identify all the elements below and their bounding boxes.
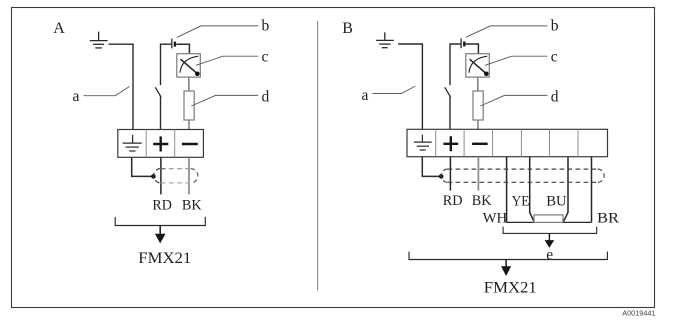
wire: top branch with corner (A) [161,44,172,85]
leader line a (B) [373,86,416,94]
wire WH (B) [506,157,508,223]
wire BK (B) [477,157,479,191]
svg-text:BK: BK [182,198,202,214]
arrow e (B) [548,233,550,240]
svg-text:c: c [551,49,558,66]
svg-text:RD: RD [443,193,463,209]
leader line d (B) [480,95,547,106]
wire: resistor to - terminal (B) [477,120,479,129]
battery b (B) [460,38,462,48]
wire: battery to meter corner (B) [466,44,479,54]
svg-text:a: a [362,87,369,104]
wire RD (B) [449,157,451,191]
terminal ground symbol (A) [123,135,142,151]
ground (earth) symbol B [376,32,394,47]
wire: meter to resistor (A) [188,77,190,91]
svg-text:FMX21: FMX21 [484,279,537,296]
svg-text:FMX21: FMX21 [138,250,191,267]
svg-text:b: b [262,17,270,34]
wire YE (B) [530,157,535,223]
wire: battery to meter corner (A) [176,44,189,54]
arrow (B) [505,260,507,267]
wire: resistor to - terminal (A) [188,120,190,130]
switch contact (A) [155,87,161,97]
junction dot on shield (B) [439,174,444,179]
wire: switch to + terminal (B) [449,97,451,129]
leader line b (A) [177,26,258,38]
svg-text:A0019441: A0019441 [622,309,655,318]
meter U c (B) [466,54,490,77]
ground (earth) symbol A [90,32,108,48]
wire: terminal 1 to cable shield (B) [422,157,439,177]
bracket (A) [115,217,205,226]
cable sheath oval (B) [441,169,604,182]
leader line b (B) [466,26,547,37]
svg-text:e: e [546,246,553,263]
leader line d (A) [191,95,258,106]
svg-text:d: d [551,88,559,105]
wire: top branch with corner (B) [450,44,460,85]
wire RD (A) [160,157,162,194]
svg-text:a: a [73,88,80,105]
terminal plus symbol (B) [443,136,458,151]
resistor d (A) [184,91,194,120]
svg-text:YE: YE [512,193,530,209]
terminal ground symbol (B) [414,135,432,150]
wire: terminal 1 to cable shield (A) [132,157,152,176]
svg-text:BU: BU [546,193,567,209]
wire BR (B) [591,157,593,223]
panel divider [317,21,319,290]
wire: bottom joining line (B) [507,221,592,223]
svg-text:A: A [53,20,65,37]
cable sheath oval (A) [154,169,198,183]
svg-text:BR: BR [597,210,619,226]
terminal block A [118,130,204,158]
leader line c (A) [196,56,258,65]
terminal minus symbol (B) [472,143,488,145]
inner bracket e (B) [503,227,597,234]
wire: switch to + terminal (A) [160,97,162,130]
leader line a (A) [84,86,130,95]
matching resistor between YE and BU (B) [534,215,563,223]
outer bracket (B) [409,252,607,260]
junction dot on shield (A) [151,174,156,179]
resistor d (B) [473,91,483,120]
leader line c (B) [485,56,547,65]
wire BU (B) [563,157,568,223]
switch contact (B) [445,87,451,97]
svg-text:c: c [262,49,269,66]
wire BK (A) [188,157,190,194]
wire: ground to terminal 1 (B) [398,44,422,129]
svg-text:WH: WH [483,210,508,226]
meter U c (A) [177,54,201,77]
wire: ground to terminal 1 [109,44,134,129]
arrow (A) [159,226,161,235]
svg-text:b: b [551,17,559,34]
svg-text:d: d [262,88,270,105]
svg-text:RD: RD [152,198,172,214]
terminal minus symbol (A) [182,143,198,145]
wire: meter to resistor (B) [477,77,479,91]
battery b (A) [171,39,173,49]
terminal plus symbol (A) [153,136,168,151]
terminal block B [407,129,608,156]
svg-text:B: B [342,20,353,37]
svg-text:BK: BK [472,193,492,209]
